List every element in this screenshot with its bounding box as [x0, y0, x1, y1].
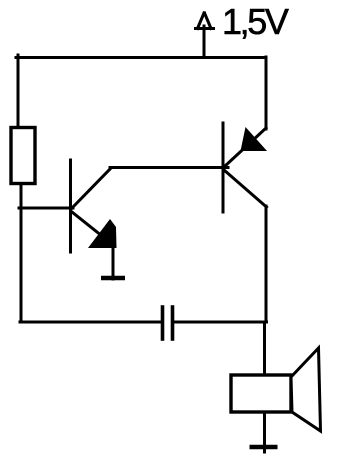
transistor Q1 collector diagonal — [71, 168, 111, 209]
resistor R1 — [11, 128, 35, 184]
wire Q2 collector down to bottom rail — [265, 206, 268, 322]
wire Q1 collector to Q2 base — [110, 166, 228, 169]
wire left drop to resistor — [17, 55, 20, 127]
wire top rail — [16, 56, 266, 59]
wire below speaker — [263, 413, 266, 452]
ground under speaker — [250, 445, 278, 449]
supply arrowhead — [196, 27, 214, 30]
wire below resistor — [20, 184, 23, 322]
capacitor C1 left plate — [161, 307, 165, 339]
wire base of Q1 — [19, 207, 73, 210]
wire Q1 emitter down — [112, 245, 115, 279]
wire bottom rail right of capacitor — [174, 321, 267, 324]
label 1,5V supply voltage — [222, 1, 286, 43]
transistor Q1 emitter arrow — [88, 219, 117, 248]
wire bottom rail left of capacitor — [20, 321, 161, 324]
wire down to speaker — [263, 322, 266, 375]
transistor Q1 emitter diagonal — [72, 212, 102, 236]
capacitor C1 right plate — [171, 307, 175, 339]
transistor Q1 base bar — [69, 160, 72, 252]
transistor Q2 collector diagonal — [224, 170, 267, 207]
supply arrow stem — [203, 26, 206, 57]
ground under Q1 — [101, 276, 125, 280]
speaker LS1 horn — [291, 348, 321, 431]
wire right drop from rail to Q2 emitter — [265, 57, 268, 129]
transistor Q2 base bar — [222, 123, 225, 212]
speaker LS1 body — [231, 375, 291, 412]
transistor Q2 emitter diagonal — [224, 128, 266, 167]
transistor Q2 emitter arrow — [241, 127, 268, 151]
